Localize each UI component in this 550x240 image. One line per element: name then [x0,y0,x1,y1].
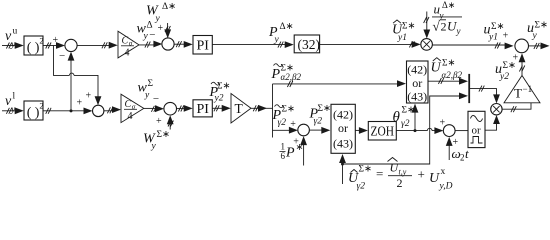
svg-text:y1: y1 [488,33,498,43]
svg-text:Σ∗: Σ∗ [535,21,549,31]
block: sine-or-square generator [468,111,485,147]
wire: input v_y^u [2,42,24,49]
svg-text:+: + [418,167,425,182]
label: U^_alpha2beta2^Sigma* [431,58,463,80]
svg-text:Σ∗: Σ∗ [318,104,332,114]
label: P_y^Delta* [268,22,294,45]
svg-text:+: + [53,35,59,46]
label: P~_alpha2beta2^Sigma* [271,64,302,83]
wire: theta branch up into upper (42)or(43) block [412,104,419,131]
svg-text:t: t [465,146,469,161]
svg-text:(43): (43) [407,90,427,104]
sign: S7 plus left [440,118,446,129]
sign: S4m minus [153,93,159,105]
multiplier M2 (circle with X) [491,104,502,115]
label: W_y^Sigma* [143,130,170,152]
wire: output u_y^Sigma* [529,43,550,50]
wire: l^2 branch up into S1 minus input [68,52,75,113]
wire: generator output up into M2 [485,115,500,130]
label: v_y^u [5,27,18,51]
svg-text:U: U [431,61,442,76]
svg-text:Σ: Σ [148,79,154,89]
wire: branch u^2 down and across to summer S2 (hop over x=71) [54,46,102,106]
svg-text:+: + [156,116,162,127]
svg-text:θ: θ [393,110,401,126]
summer S4m (w-Sigma summer) [164,102,177,115]
label: T^-1 in triangle [514,84,532,101]
label: U^_y1^Sigma* [392,20,416,43]
wire: P_gamma2^Sigma* from S5 to block (42)or(43) middle [309,127,330,134]
label: v_y^l [5,92,16,116]
wire: u_y2^Sigma* from T-inverse apex up into S6 [519,53,526,75]
label: P~_y2^Sigma* [209,82,231,104]
wire: u_y^Delta*/sqrt(2)U_y input down into M1 [423,12,430,39]
svg-text:or: or [412,76,422,90]
block: ZOH [368,122,396,141]
svg-text:√: √ [433,19,441,34]
label: C_sigma/4 in G2 [124,99,137,122]
svg-text:C: C [125,99,132,110]
label: P~_gamma2^Sigma* [272,105,296,129]
wire: squarer-l output to summer S2 [43,108,93,115]
block: equation (42) or (43) middle [331,104,355,153]
wire: distribution vertical (alpha-beta / gamma split) [272,84,274,138]
svg-text:Σ∗: Σ∗ [402,22,416,32]
label: u_y2^Sigma* [495,61,516,82]
label: fraction u_y^Delta* / sqrt2 U_y [432,0,462,36]
wire: U^_alpha2beta2^Sigma* from upper block to merge bar [428,78,468,85]
svg-text:2: 2 [441,20,447,34]
svg-text:(32): (32) [298,37,321,52]
svg-text:(42): (42) [333,108,353,122]
label: w_y^Sigma [138,79,154,101]
label: (42) or (43) middle box text [333,108,353,151]
svg-text:2: 2 [39,101,43,111]
svg-text:2: 2 [39,36,43,46]
summer S5 (gamma power summer) [298,124,310,136]
svg-text:x: x [441,167,446,177]
svg-text:α2,β2: α2,β2 [281,72,302,82]
sign: S1 minus [59,50,65,62]
gain G2: C_sigma/4 [121,94,144,122]
svg-text:Σ∗: Σ∗ [217,82,231,92]
wire: U^_gamma2^Sigma* equation net (stub, across, riser to bar) [339,93,468,185]
label: ZOH box text [371,124,395,139]
svg-text:y: y [151,142,157,152]
label: omega_2 t [452,146,470,163]
sign: S6 plus bottom [513,52,519,63]
svg-text:Σ∗: Σ∗ [359,165,373,175]
label: u_y1^Sigma* [484,22,505,43]
svg-text:γ2: γ2 [357,182,366,192]
svg-text:l: l [13,92,16,102]
svg-text:∗: ∗ [296,143,304,153]
label: u_y^Sigma* output [527,21,548,42]
svg-text:(: ( [27,106,32,121]
svg-text:PI: PI [197,102,210,117]
wire: S7 output to sine/square block [455,130,468,132]
svg-text:T: T [235,101,244,116]
merge bar (vector combine) [468,74,470,103]
label: equation U^_gamma2 = U^_t,y/2 + U_y,D^x [348,158,453,192]
wire: P~_gamma2^Sigma* to summer S5 [273,127,298,134]
multiplier M1 (circle with X) [421,39,433,51]
label: w_y^Delta [137,21,153,42]
svg-text:σ: σ [132,103,136,111]
svg-text:4: 4 [125,48,130,59]
label: ( )^2 lower box text [27,101,44,121]
summer S1 [65,39,77,51]
svg-text:y: y [143,32,149,42]
svg-text:Σ∗: Σ∗ [157,130,171,140]
wire: w_y^Sigma to summer S4m [144,105,164,112]
svg-text:4: 4 [128,111,133,122]
wire: P_y^Delta* from PI to block (32) [212,41,293,48]
svg-text:PI: PI [197,39,210,54]
block: squarer ( )^2 lower [24,101,43,120]
svg-text:(42): (42) [407,63,427,77]
svg-text:6: 6 [281,151,286,161]
svg-text:P: P [271,67,281,82]
block: equation (32) [294,35,319,53]
svg-text:y: y [532,31,538,41]
svg-text:γ2: γ2 [314,117,323,127]
svg-text:Σ∗: Σ∗ [442,59,456,69]
svg-text:σ: σ [129,40,133,48]
svg-text:Σ∗: Σ∗ [282,105,296,115]
block: inverse transform T^-1 triangle [504,76,540,103]
wire: input v_y^l [2,107,24,114]
label: theta_gamma2^Sigma* [393,106,416,130]
svg-text:Δ∗: Δ∗ [442,0,455,10]
svg-text:y: y [10,40,16,50]
svg-text:y: y [274,35,280,45]
svg-text:−: − [153,93,159,105]
svg-text:+: + [440,118,446,129]
svg-text:y: y [456,26,461,36]
summer S3 [162,38,174,50]
block: transform T triangle [231,94,251,124]
svg-text:2: 2 [460,153,465,163]
svg-text:T: T [514,86,522,101]
wire: w_y^Delta to summer S3 [139,41,162,48]
block: squarer ( )^2 upper [24,36,43,55]
wire: middle block to ZOH [355,127,368,134]
summer S6 (output summer) [515,39,529,53]
sign: S5 plus bottom [293,136,299,147]
svg-text:−: − [149,29,155,41]
wire: S4m to PI block (middle) [177,105,193,112]
svg-text:1: 1 [281,142,286,152]
sign: S1 plus [53,35,59,46]
svg-text:U: U [429,171,440,186]
svg-text:u: u [13,27,18,37]
label: C_sigma/4 in G1 [121,36,134,59]
svg-text:γ2: γ2 [278,118,287,128]
svg-text:+: + [290,119,296,130]
svg-text:=: = [376,166,383,181]
svg-text:+: + [86,91,92,102]
summer S2 [93,105,104,116]
svg-text:−: − [59,50,65,62]
svg-text:α2,β2: α2,β2 [442,70,463,80]
svg-text:y,D: y,D [439,182,453,192]
sign: S2 plus left [77,98,83,109]
wire: M2 output right and up into T-inverse base [502,103,531,112]
wire: P~_alpha2beta2^Sigma* to block (42)or(43) upper [273,80,407,87]
svg-text:+: + [158,23,164,34]
svg-text:or: or [338,121,348,135]
wire: T output to distribution node [251,105,273,112]
svg-text:or: or [472,125,482,137]
wire: W_y^Delta* input down into S3 [164,23,171,38]
svg-text:y1: y1 [397,33,407,43]
wire: P~_y2^Sigma* from PI to transform T [212,105,230,112]
svg-text:−1: −1 [523,84,533,94]
label: P_gamma2^Sigma* [309,104,332,127]
sign: S3 plus [158,23,164,34]
gain G1: C_sigma/4 [118,31,139,58]
wire: W_y^Sigma* input up into S4m [167,115,174,129]
label: (32) box text [298,37,321,52]
svg-text:ZOH: ZOH [371,124,395,139]
block: equation (42) or (43) upper [407,61,429,103]
label: PI middle box [197,102,210,117]
svg-text:γ2: γ2 [401,119,410,129]
wire: U^_y1^Sigma* from (32) to multiplier M1 [320,41,421,48]
svg-text:y2: y2 [499,72,509,82]
sign: S4m plus [156,116,162,127]
sign: S6 plus left [503,31,509,42]
sign: S7 plus bottom [453,137,459,148]
wire: omega_2 t input up into S7 [446,137,453,160]
wire: S2 output to gain triangle G2 [104,106,121,113]
svg-text:(43): (43) [333,137,353,151]
wire: theta to summer S7 left input done above; summer S7 [443,125,455,137]
wire: S3 to PI block (top) [174,41,193,48]
svg-text:Δ∗: Δ∗ [162,2,176,12]
svg-text:Σ∗: Σ∗ [503,61,517,71]
wire: theta_gamma2^Sigma* from ZOH to summer S7 (hop over x=429.7) [396,127,443,134]
block: PI controller (middle) [193,100,212,117]
label: 1/6 P* [280,142,304,162]
svg-text:2: 2 [397,176,403,190]
wire: 1/6 P* input up into S5 [300,136,307,165]
svg-text:y: y [144,91,150,101]
svg-text:P: P [285,146,295,161]
wire: merged vector from bar down into multiplier M2 [470,86,500,104]
svg-text:y: y [10,105,16,115]
label: or-box text [472,125,482,137]
sign: S5 plus left [290,119,296,130]
sign: S2 plus top [86,91,92,102]
label: T in triangle [235,101,244,116]
svg-text:Σ∗: Σ∗ [402,106,416,116]
label: ( )^2 upper box text [27,36,44,56]
svg-text:C: C [122,36,129,47]
sign: S3 minus [149,29,155,41]
svg-text:+: + [503,31,509,42]
label: (42) or (43) upper box text [407,63,427,104]
svg-text:(: ( [27,41,32,56]
wire: S1 output to gain triangle G1 [77,42,118,49]
svg-text:y2: y2 [214,94,224,104]
label: W_y^Delta* [146,2,176,24]
wire: squarer-u output to summer S1 [43,42,65,49]
wire: u_y1^Sigma* from M1 to summer S6 [432,43,513,50]
svg-text:Δ∗: Δ∗ [280,22,294,32]
label: PI top box [197,39,210,54]
block: PI controller (top) [193,36,212,55]
svg-text:+: + [77,98,83,109]
